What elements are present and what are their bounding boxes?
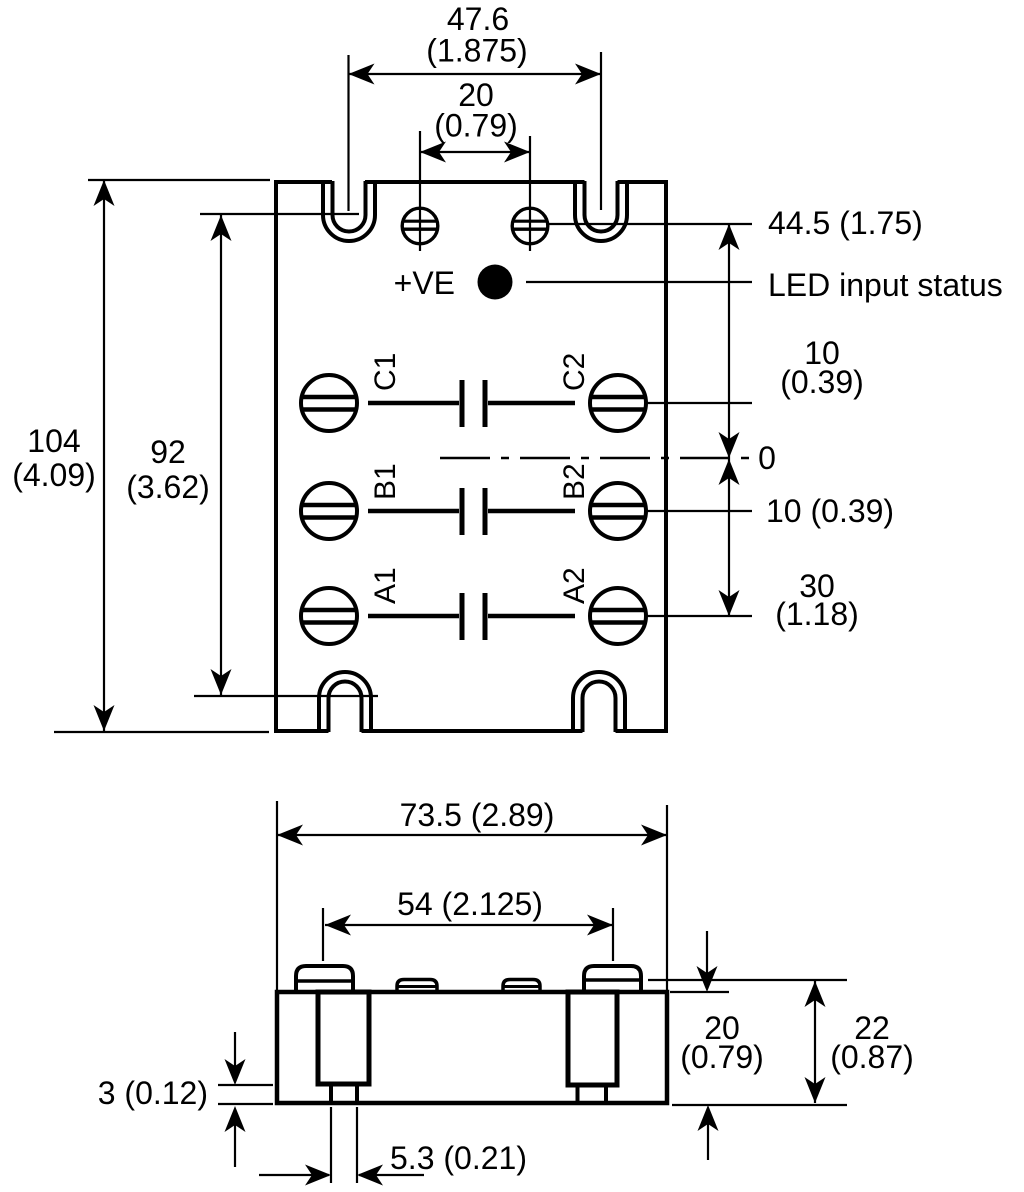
- svg-text:3 (0.12): 3 (0.12): [98, 1075, 208, 1111]
- input screw right: [512, 208, 548, 244]
- dimension 73.5 (2.89): [400, 797, 555, 833]
- leader line A2 right: [647, 615, 752, 617]
- 44.5 leader line from screw: [549, 223, 752, 225]
- svg-text:C1: C1: [369, 353, 402, 391]
- contact symbol row B: [368, 488, 575, 535]
- svg-text:B2: B2: [558, 463, 591, 500]
- svg-text:54 (2.125): 54 (2.125): [397, 886, 543, 922]
- dimension 92 (3.62) text: [126, 434, 210, 505]
- dimension 104 vertical line with arrows: [54, 180, 270, 732]
- terminal foot left: [331, 1084, 357, 1103]
- terminal block right: [568, 992, 617, 1085]
- svg-text:B1: B1: [369, 463, 402, 500]
- contact symbol row A: [368, 593, 575, 640]
- svg-text:(3.62): (3.62): [126, 469, 210, 505]
- dimension 47.6 line with arrows: [349, 52, 602, 211]
- dimension 54 (2.125): [397, 886, 543, 922]
- terminal foot right: [578, 1085, 607, 1103]
- terminal cap right: [584, 966, 641, 994]
- mounting slot top-left: [323, 181, 375, 241]
- dimension 47.6 (1.875) text: [426, 1, 527, 69]
- svg-text:(0.79): (0.79): [680, 1039, 764, 1075]
- terminal screw C1: [301, 375, 357, 431]
- dimension 10/30 vertical line right: [719, 458, 740, 616]
- SSR body side view: [277, 992, 667, 1103]
- svg-text:5.3 (0.21): 5.3 (0.21): [390, 1140, 527, 1176]
- LED leader line: [526, 281, 752, 283]
- dimension 104 (4.09) text: [12, 423, 96, 493]
- dimension 22 line with arrows: [805, 981, 826, 1103]
- terminal screw A1: [301, 588, 357, 644]
- svg-text:0: 0: [758, 440, 776, 476]
- terminal block left: [318, 992, 369, 1084]
- svg-text:104: 104: [27, 423, 80, 459]
- dimension 3 (0.12): [98, 1075, 208, 1111]
- small bump left: [397, 980, 437, 993]
- svg-text:92: 92: [150, 434, 186, 470]
- svg-text:(0.87): (0.87): [830, 1039, 914, 1075]
- small bump right: [503, 980, 540, 993]
- svg-text:(0.39): (0.39): [780, 364, 864, 400]
- svg-text:(1.18): (1.18): [775, 596, 859, 632]
- dimension 20 (0.79) side text: [680, 1010, 764, 1075]
- svg-text:+VE: +VE: [394, 265, 455, 301]
- svg-text:44.5 (1.75): 44.5 (1.75): [768, 205, 923, 241]
- svg-text:C2: C2: [558, 353, 591, 391]
- svg-text:A2: A2: [558, 567, 591, 604]
- input screw left: [402, 208, 438, 244]
- SSR body outline top view: [274, 180, 668, 733]
- right side dimension texts: [758, 205, 1003, 632]
- svg-text:LED input status: LED input status: [768, 267, 1003, 303]
- terminal cap left: [296, 966, 353, 994]
- terminal screw B1: [301, 483, 357, 539]
- svg-text:A1: A1: [369, 567, 402, 604]
- leader line C2 right: [647, 402, 752, 404]
- dimension 92 vertical line with arrows: [194, 214, 378, 696]
- svg-text:10 (0.39): 10 (0.39): [766, 493, 894, 529]
- body top extension line right: [670, 991, 729, 993]
- terminal screw C2: [590, 375, 646, 431]
- terminal screw B2: [590, 483, 646, 539]
- body bottom extension line right: [672, 1104, 847, 1106]
- leader line B2 right: [647, 510, 752, 512]
- contact symbol row C: [368, 380, 575, 427]
- dimension 22 (0.87) text: [830, 1010, 914, 1075]
- svg-text:73.5 (2.89): 73.5 (2.89): [400, 797, 555, 833]
- mounting slot bottom-right: [573, 672, 625, 732]
- dimension 44.5 vertical line right: [719, 224, 740, 458]
- dimension 20 side arrows: [697, 931, 719, 1160]
- dimension 20 (0.79) text: [434, 77, 518, 144]
- dimension 20 line with arrows and extension lines through screws: [420, 131, 530, 251]
- mounting slot top-right: [575, 181, 627, 241]
- centerline dash-dot: [440, 457, 750, 460]
- mounting slot bottom-left: [319, 672, 371, 732]
- terminal screw A2: [590, 588, 646, 644]
- pin extension lines for 5.3: [330, 1107, 332, 1183]
- LED indicator: [478, 265, 513, 300]
- svg-text:(0.79): (0.79): [434, 108, 518, 144]
- dimension 5.3 (0.21): [390, 1140, 527, 1176]
- cap level extension line right: [648, 979, 847, 981]
- svg-text:(4.09): (4.09): [12, 457, 96, 493]
- svg-text:(1.875): (1.875): [426, 33, 527, 69]
